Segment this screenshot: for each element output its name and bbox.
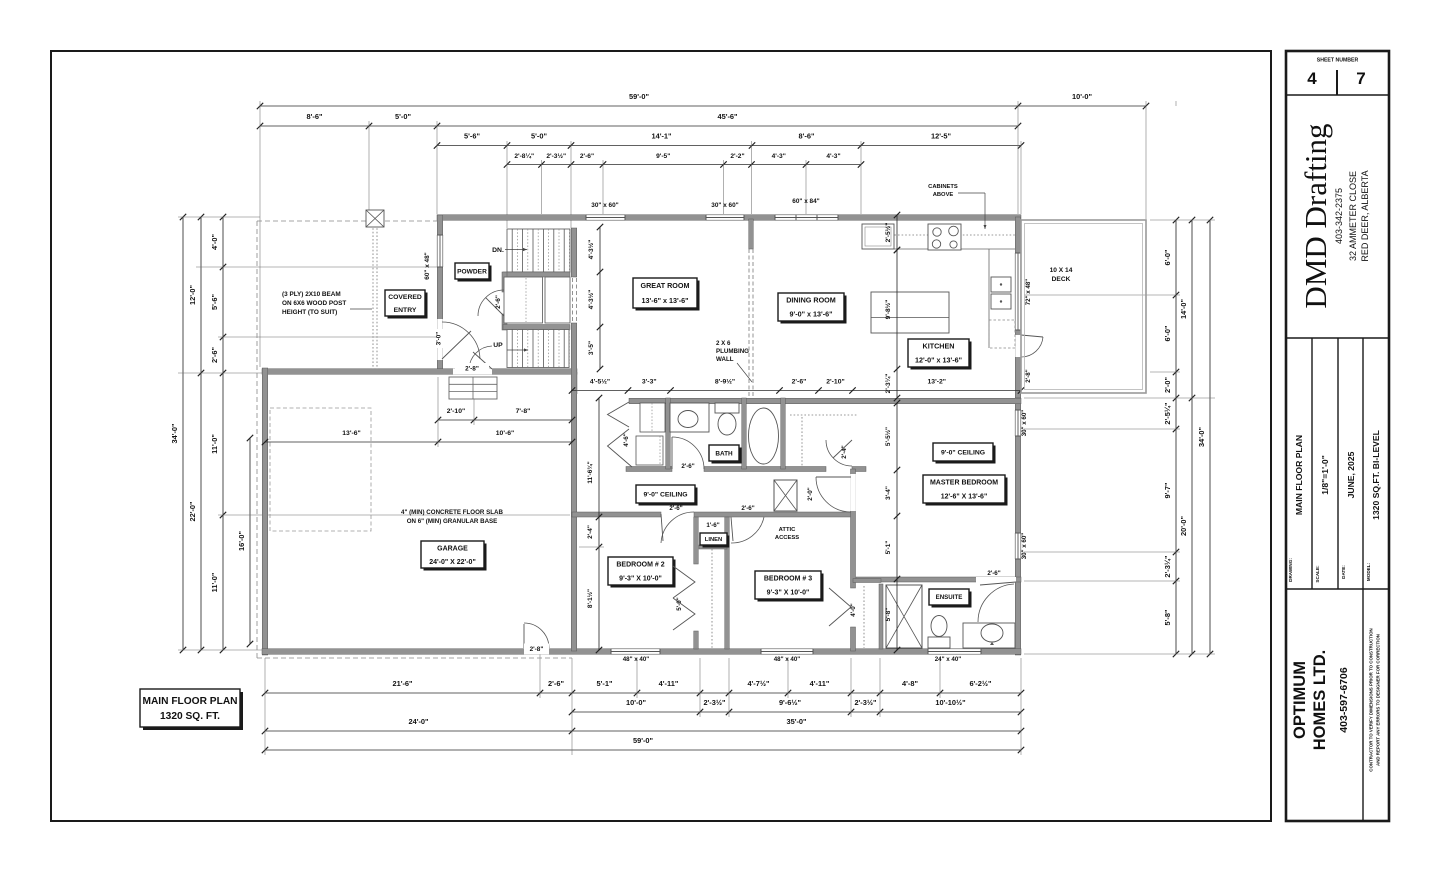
svg-text:2 X 6: 2 X 6 bbox=[716, 340, 731, 347]
stair right wall upper bbox=[571, 228, 577, 277]
bed3 closet right wall lower bbox=[851, 627, 856, 651]
hall end wall to master bbox=[851, 469, 856, 588]
svg-text:403-597-6706: 403-597-6706 bbox=[1338, 667, 1350, 733]
bottom dimension row 1 bbox=[265, 692, 1021, 694]
svg-text:8'-1½": 8'-1½" bbox=[586, 589, 594, 608]
svg-text:ON 6X6 WOOD POST: ON 6X6 WOOD POST bbox=[282, 300, 346, 307]
kitchen window 72x48 bbox=[1015, 253, 1021, 330]
garage left wall bbox=[262, 368, 268, 655]
sheet border frame bbox=[51, 51, 1271, 821]
builder name block bbox=[1362, 589, 1364, 821]
ensuite door swing bbox=[978, 584, 1014, 622]
steps down to garage bbox=[449, 377, 497, 399]
master interior dims bbox=[896, 403, 898, 650]
svg-text:5'-0": 5'-0" bbox=[676, 597, 683, 610]
covered entry roof dashed outline bbox=[257, 220, 437, 222]
svg-text:MASTER BEDROOM: MASTER BEDROOM bbox=[930, 480, 998, 487]
great room label bbox=[636, 281, 700, 311]
top exterior wall bbox=[437, 215, 1021, 221]
svg-text:45'-6": 45'-6" bbox=[717, 112, 738, 121]
svg-text:2'-0": 2'-0" bbox=[807, 487, 814, 500]
svg-text:2'-8": 2'-8" bbox=[465, 366, 479, 373]
svg-text:4'-6": 4'-6" bbox=[623, 433, 630, 446]
svg-text:32 AMMETER CLOSE: 32 AMMETER CLOSE bbox=[1348, 171, 1358, 261]
deck outline bbox=[1021, 220, 1146, 393]
svg-text:4'-11": 4'-11" bbox=[659, 679, 679, 688]
svg-text:13'-2": 13'-2" bbox=[928, 379, 946, 386]
house mid wall bbox=[629, 398, 1021, 404]
double sink bbox=[991, 277, 1011, 292]
svg-text:10'-6": 10'-6" bbox=[496, 430, 514, 437]
bed2 closet wall bbox=[694, 517, 699, 564]
svg-text:21'-6": 21'-6" bbox=[392, 679, 413, 688]
svg-text:2'-4": 2'-4" bbox=[841, 445, 848, 458]
svg-text:59'-0": 59'-0" bbox=[629, 92, 650, 101]
right dimension column 14ft 20ft bbox=[1191, 220, 1193, 654]
right dimension column 34ft bbox=[1209, 220, 1211, 654]
right witness lines bbox=[1150, 219, 1215, 221]
svg-text:30" x 60": 30" x 60" bbox=[711, 202, 738, 209]
garage interior 16ft dim bbox=[249, 438, 251, 644]
stair landing bbox=[504, 277, 543, 323]
svg-text:48" x 40": 48" x 40" bbox=[774, 656, 801, 663]
bath label bbox=[712, 448, 742, 464]
svg-text:60" x 84": 60" x 84" bbox=[792, 198, 819, 205]
svg-text:4'-0": 4'-0" bbox=[850, 603, 857, 616]
stair wall above UP flight bbox=[503, 325, 570, 330]
garage top wall bbox=[262, 369, 577, 375]
svg-text:12'-5": 12'-5" bbox=[931, 132, 952, 141]
dining window 30x60 bbox=[706, 215, 744, 221]
svg-text:10'-10½": 10'-10½" bbox=[935, 698, 966, 707]
stair wall below DN flight bbox=[503, 272, 570, 277]
svg-text:5'-6": 5'-6" bbox=[464, 132, 480, 141]
svg-text:ACCESS: ACCESS bbox=[775, 535, 799, 541]
svg-text:COVERED: COVERED bbox=[388, 294, 422, 301]
svg-text:9'-8½": 9'-8½" bbox=[884, 300, 892, 320]
hall closet bifold doors bbox=[608, 402, 630, 427]
hall ceiling label bbox=[639, 488, 698, 506]
svg-text:3'-5": 3'-5" bbox=[588, 341, 595, 355]
svg-text:CONTRACTOR TO VERIFY DIMENSION: CONTRACTOR TO VERIFY DIMENSIONS PRIOR TO… bbox=[1369, 628, 1374, 771]
front door swing bbox=[442, 322, 480, 359]
front door opening bbox=[437, 319, 443, 360]
svg-text:5'-0": 5'-0" bbox=[531, 132, 547, 141]
svg-text:4'-11": 4'-11" bbox=[810, 679, 830, 688]
drawing info rows bbox=[1311, 338, 1313, 589]
master bottom wall bbox=[856, 577, 1021, 582]
entry post symbol bbox=[366, 210, 384, 227]
great room open rail dashes bbox=[748, 249, 750, 398]
svg-text:2'-8": 2'-8" bbox=[1025, 369, 1032, 382]
svg-text:24'-0" X 22'-0": 24'-0" X 22'-0" bbox=[429, 559, 476, 566]
bathtub bbox=[749, 408, 779, 464]
svg-text:9'-6½": 9'-6½" bbox=[779, 698, 802, 707]
svg-text:KITCHEN: KITCHEN bbox=[923, 342, 955, 351]
garage door swing bbox=[524, 623, 549, 648]
svg-text:4'-3½": 4'-3½" bbox=[587, 290, 595, 310]
counter edge bbox=[894, 248, 1015, 250]
svg-text:ON 6" (MIN) GRANULAR BASE: ON 6" (MIN) GRANULAR BASE bbox=[407, 518, 498, 525]
bottom dimension row 2 bbox=[572, 711, 1021, 713]
ensuite window 24x40 bbox=[928, 649, 981, 655]
interior dim row mid bbox=[572, 390, 1021, 392]
attic access hatch bbox=[774, 480, 797, 511]
garage man door opening bbox=[524, 649, 549, 655]
master ceiling label bbox=[936, 446, 996, 464]
svg-text:GARAGE: GARAGE bbox=[437, 545, 468, 552]
svg-text:2'-8¼": 2'-8¼" bbox=[514, 152, 534, 160]
deck door swing bbox=[1021, 337, 1043, 357]
svg-text:SCALE:: SCALE: bbox=[1315, 565, 1320, 583]
right dimension column deck and master bbox=[1175, 220, 1177, 654]
svg-text:MAIN FLOOR PLAN: MAIN FLOOR PLAN bbox=[1294, 435, 1304, 515]
bed3 closet top wall bbox=[853, 579, 881, 583]
ensuite label bbox=[932, 592, 972, 608]
svg-text:9'-5": 9'-5" bbox=[656, 153, 670, 160]
kitchen interior dims bbox=[896, 250, 898, 398]
bedroom3 door swing bbox=[731, 517, 764, 543]
svg-text:9'-7": 9'-7" bbox=[1163, 482, 1172, 498]
svg-text:CABINETS: CABINETS bbox=[928, 184, 958, 190]
svg-text:5'-6": 5'-6" bbox=[210, 294, 219, 310]
svg-text:30" x 60": 30" x 60" bbox=[1021, 410, 1028, 437]
svg-text:2'-3½": 2'-3½" bbox=[854, 698, 877, 707]
svg-text:2'-3½": 2'-3½" bbox=[546, 152, 566, 160]
linen closet walls bbox=[725, 517, 730, 649]
svg-text:DECK: DECK bbox=[1052, 276, 1071, 283]
svg-text:2'-4": 2'-4" bbox=[587, 525, 594, 539]
svg-text:POWDER: POWDER bbox=[457, 268, 487, 275]
svg-text:9'-0" x 13'-6": 9'-0" x 13'-6" bbox=[790, 310, 833, 319]
stairwell lower flight UP bbox=[507, 330, 569, 368]
svg-text:2'-6": 2'-6" bbox=[548, 679, 564, 688]
svg-text:403-342-2375: 403-342-2375 bbox=[1334, 188, 1344, 244]
fridge bbox=[862, 224, 894, 249]
bottom exterior wall bbox=[262, 649, 1021, 655]
svg-text:16'-0": 16'-0" bbox=[237, 530, 246, 551]
bedroom2 door swing bbox=[661, 512, 694, 543]
svg-text:14'-1": 14'-1" bbox=[651, 132, 672, 141]
svg-text:3'-3": 3'-3" bbox=[642, 379, 657, 386]
svg-text:ABOVE: ABOVE bbox=[933, 192, 954, 198]
svg-text:SHEET NUMBER: SHEET NUMBER bbox=[1317, 58, 1359, 64]
svg-text:20'-0": 20'-0" bbox=[1179, 515, 1188, 536]
svg-text:DN.: DN. bbox=[492, 247, 504, 254]
kitchen island with eating bar bbox=[871, 292, 949, 333]
title block outer box bbox=[1286, 51, 1389, 821]
master window 30x60 lower bbox=[1015, 533, 1021, 559]
svg-text:AND REPORT ANY ERRORS TO DESIG: AND REPORT ANY ERRORS TO DESIGNER FOR CO… bbox=[1376, 634, 1381, 766]
bath sink counter bbox=[670, 403, 709, 432]
svg-text:4" (MIN) CONCRETE FLOOR SLAB: 4" (MIN) CONCRETE FLOOR SLAB bbox=[401, 509, 503, 516]
svg-text:2'-6": 2'-6" bbox=[741, 505, 754, 512]
top dimension row 3 bbox=[437, 145, 1021, 147]
svg-text:5'-8": 5'-8" bbox=[885, 608, 892, 622]
bedroom3 closet rod bbox=[863, 586, 865, 648]
svg-text:1320 SQ. FT.: 1320 SQ. FT. bbox=[160, 711, 220, 722]
svg-text:10'-0": 10'-0" bbox=[626, 698, 647, 707]
dining window 60x84 bbox=[775, 215, 838, 221]
svg-text:2'-6": 2'-6" bbox=[669, 505, 682, 512]
svg-text:2'-3¼": 2'-3¼" bbox=[1163, 555, 1172, 578]
kitchen label bbox=[911, 342, 972, 370]
svg-text:4'-8": 4'-8" bbox=[902, 679, 918, 688]
covered entry label bbox=[388, 293, 428, 319]
svg-text:12'-0": 12'-0" bbox=[188, 284, 197, 305]
DMD Drafting firm name bbox=[1286, 337, 1389, 339]
svg-text:9'-0" CEILING: 9'-0" CEILING bbox=[643, 491, 687, 498]
svg-text:ENSUITE: ENSUITE bbox=[936, 594, 963, 601]
garage label bbox=[424, 544, 487, 571]
entry to garage door opening bbox=[453, 369, 492, 375]
svg-text:2'-6": 2'-6" bbox=[495, 295, 502, 309]
svg-text:4'-0": 4'-0" bbox=[210, 234, 219, 250]
svg-text:MODEL:: MODEL: bbox=[1366, 562, 1371, 581]
bedroom2 closet rod bbox=[711, 549, 713, 648]
ensuite toilet bbox=[928, 637, 950, 648]
dining room label bbox=[781, 296, 847, 324]
top dimension row 4 bbox=[507, 164, 861, 166]
dishwasher dashed bbox=[989, 320, 1015, 348]
svg-text:ENTRY: ENTRY bbox=[394, 307, 417, 314]
svg-text:1'-6": 1'-6" bbox=[706, 522, 719, 529]
svg-text:3'-4": 3'-4" bbox=[885, 486, 892, 500]
bottom witness lines bbox=[264, 658, 266, 755]
svg-text:9'-3" X 10'-0": 9'-3" X 10'-0" bbox=[619, 576, 662, 583]
plumbing wall stub bbox=[749, 219, 754, 249]
right counter edge bbox=[988, 249, 990, 348]
master entry door bbox=[816, 477, 851, 512]
svg-text:30" x 60": 30" x 60" bbox=[591, 202, 618, 209]
upper cabinets dotted line bbox=[862, 234, 1015, 236]
entry window 60x48 bbox=[437, 235, 443, 267]
front entry wall bbox=[437, 215, 443, 370]
svg-text:4'-3": 4'-3" bbox=[826, 153, 840, 160]
hall closet shelves bbox=[640, 403, 665, 432]
svg-text:72" x 48": 72" x 48" bbox=[1025, 279, 1032, 306]
master window 30x60 upper bbox=[1015, 410, 1021, 436]
svg-text:2'-5¼": 2'-5¼" bbox=[1163, 402, 1172, 425]
stove with burners bbox=[928, 224, 961, 250]
bedroom3 label bbox=[758, 574, 824, 602]
bath door swing bbox=[672, 437, 704, 469]
garage dashed interior outline bbox=[270, 408, 371, 531]
svg-text:4: 4 bbox=[1307, 69, 1317, 88]
walkin closet door bbox=[826, 440, 852, 466]
svg-text:2'-2": 2'-2" bbox=[730, 153, 744, 160]
svg-text:3'-0": 3'-0" bbox=[436, 332, 443, 345]
bedroom3 closet bifold bbox=[829, 588, 851, 626]
entry-garage door swing bbox=[469, 346, 492, 369]
svg-text:2'-10": 2'-10" bbox=[447, 408, 465, 415]
bedroom3 window 48x40 bbox=[761, 649, 813, 655]
svg-text:2'-3½": 2'-3½" bbox=[703, 698, 726, 707]
walkin closet left wall is tub wall; hall bottom wall bbox=[572, 512, 661, 517]
house right wall kitchen bbox=[1015, 217, 1021, 398]
svg-text:13'-6": 13'-6" bbox=[342, 430, 360, 437]
stair right wall lower bbox=[571, 323, 577, 651]
stairwell upper flight DN bbox=[507, 229, 570, 272]
svg-text:DINING ROOM: DINING ROOM bbox=[786, 296, 836, 305]
svg-text:4'-7½": 4'-7½" bbox=[747, 679, 770, 688]
svg-text:60" x 48": 60" x 48" bbox=[424, 252, 431, 279]
svg-text:11'-6¾": 11'-6¾" bbox=[586, 461, 594, 483]
svg-text:DATE:: DATE: bbox=[1341, 565, 1346, 579]
svg-text:4'-3": 4'-3" bbox=[772, 153, 786, 160]
svg-text:48" x 40": 48" x 40" bbox=[623, 656, 650, 663]
bedroom2 closet bifold bbox=[673, 566, 695, 598]
svg-text:1320 SQ.FT. BI-LEVEL: 1320 SQ.FT. BI-LEVEL bbox=[1371, 430, 1381, 520]
svg-text:UP: UP bbox=[493, 342, 503, 349]
svg-text:PLUMBING: PLUMBING bbox=[716, 348, 749, 355]
svg-text:59'-0": 59'-0" bbox=[633, 736, 654, 745]
bath block bottom wall bbox=[626, 467, 672, 472]
svg-text:4'-3½": 4'-3½" bbox=[587, 240, 595, 260]
top dimension row 2 bbox=[260, 125, 1018, 127]
bedroom2 label bbox=[611, 560, 676, 588]
svg-text:BEDROOM # 2: BEDROOM # 2 bbox=[616, 562, 664, 569]
svg-text:14'-0": 14'-0" bbox=[1179, 298, 1188, 319]
bath toilet bbox=[715, 403, 739, 413]
svg-text:DRAWING:: DRAWING: bbox=[1288, 558, 1293, 582]
stair side dims bbox=[599, 227, 601, 369]
svg-text:2'-10": 2'-10" bbox=[826, 379, 844, 386]
stair open rail dashes bbox=[572, 278, 574, 322]
landing left wall below door bbox=[502, 314, 507, 330]
svg-text:8'-9½": 8'-9½" bbox=[715, 378, 735, 386]
svg-text:6'-0": 6'-0" bbox=[1163, 249, 1172, 265]
walkin closet rod dashed bbox=[790, 414, 858, 416]
entry post dotted line bbox=[372, 221, 374, 369]
svg-text:HOMES LTD.: HOMES LTD. bbox=[1311, 650, 1329, 751]
tub right wall bbox=[781, 398, 786, 469]
svg-text:OPTIMUM: OPTIMUM bbox=[1291, 661, 1309, 739]
svg-text:34'-0": 34'-0" bbox=[170, 423, 179, 444]
svg-text:13'-6" x 13'-6": 13'-6" x 13'-6" bbox=[642, 296, 689, 305]
svg-text:2'-8": 2'-8" bbox=[530, 646, 544, 653]
ensuite left walls bbox=[879, 584, 883, 649]
svg-text:11'-0": 11'-0" bbox=[210, 434, 219, 454]
svg-text:5'-8": 5'-8" bbox=[1163, 609, 1172, 625]
svg-text:1/8"=1'-0": 1/8"=1'-0" bbox=[1320, 455, 1330, 495]
powder door to landing bbox=[478, 290, 504, 316]
left witness lines bbox=[178, 216, 260, 218]
svg-text:WALL: WALL bbox=[716, 356, 734, 363]
svg-text:5'-0": 5'-0" bbox=[395, 112, 411, 121]
master bedroom label bbox=[926, 478, 1008, 506]
svg-text:35'-0": 35'-0" bbox=[786, 717, 807, 726]
svg-text:BEDROOM # 3: BEDROOM # 3 bbox=[764, 576, 812, 583]
svg-text:11'-0": 11'-0" bbox=[210, 572, 219, 592]
bottom dimension row 4 bbox=[265, 749, 1021, 751]
left dimension column 12ft 22ft bbox=[200, 217, 202, 650]
left dimension column inner bbox=[222, 217, 224, 650]
svg-text:4'-5½": 4'-5½" bbox=[590, 378, 610, 386]
svg-text:9'-3" X 10'-0": 9'-3" X 10'-0" bbox=[767, 590, 810, 597]
svg-text:8'-6": 8'-6" bbox=[307, 112, 323, 121]
svg-text:LINEN: LINEN bbox=[705, 537, 722, 543]
garage interior dims bbox=[265, 441, 572, 443]
svg-text:24'-0": 24'-0" bbox=[408, 717, 429, 726]
ensuite sink counter bbox=[963, 623, 1015, 648]
svg-text:2'-6": 2'-6" bbox=[210, 347, 219, 363]
landing left wall above door bbox=[502, 272, 507, 292]
bedroom2 window 48x40 bbox=[611, 649, 660, 655]
svg-text:9'-0" CEILING: 9'-0" CEILING bbox=[941, 449, 985, 456]
main floor plan title bbox=[143, 692, 243, 730]
svg-text:2'-0": 2'-0" bbox=[1163, 377, 1172, 393]
ensuite shower bbox=[886, 585, 922, 648]
svg-text:ATTIC: ATTIC bbox=[779, 527, 796, 533]
great room window 30x60 bbox=[586, 215, 625, 221]
svg-text:12'-6" X 13'-6": 12'-6" X 13'-6" bbox=[941, 494, 988, 501]
deck door opening bbox=[1015, 335, 1021, 357]
svg-text:2'-6": 2'-6" bbox=[681, 463, 694, 470]
svg-text:6'-2½": 6'-2½" bbox=[969, 679, 992, 688]
top witness lines bbox=[259, 101, 261, 367]
svg-text:7: 7 bbox=[1356, 69, 1365, 88]
svg-text:BATH: BATH bbox=[715, 450, 733, 457]
svg-text:DMD Drafting: DMD Drafting bbox=[1298, 123, 1333, 308]
svg-text:GREAT ROOM: GREAT ROOM bbox=[641, 281, 690, 290]
svg-text:5'-1": 5'-1" bbox=[885, 541, 892, 555]
svg-text:(3 PLY) 2X10 BEAM: (3 PLY) 2X10 BEAM bbox=[282, 291, 341, 298]
svg-text:5'-5½": 5'-5½" bbox=[884, 427, 892, 446]
svg-text:8'-6": 8'-6" bbox=[799, 132, 815, 141]
powder room label bbox=[458, 266, 492, 282]
svg-text:24" x 40": 24" x 40" bbox=[935, 656, 962, 663]
top dimension row 59ft and 10ft bbox=[260, 105, 1146, 107]
hall interior dims bbox=[598, 398, 600, 650]
svg-text:22'-0": 22'-0" bbox=[188, 501, 197, 522]
svg-text:6'-0": 6'-0" bbox=[1163, 325, 1172, 341]
svg-text:2'-6": 2'-6" bbox=[792, 379, 807, 386]
svg-text:RED DEER, ALBERTA: RED DEER, ALBERTA bbox=[1360, 170, 1370, 261]
sheet number section bbox=[1286, 94, 1389, 96]
bath toilet tub wall bbox=[742, 398, 747, 469]
svg-text:5'-1": 5'-1" bbox=[597, 679, 613, 688]
svg-text:HEIGHT (TO SUIT): HEIGHT (TO SUIT) bbox=[282, 309, 337, 316]
svg-text:2'-6": 2'-6" bbox=[580, 153, 594, 160]
svg-text:JUNE, 2025: JUNE, 2025 bbox=[1346, 451, 1356, 498]
svg-text:34'-0": 34'-0" bbox=[1197, 426, 1206, 447]
master right wall bbox=[1015, 398, 1021, 655]
svg-text:30" x 60": 30" x 60" bbox=[1021, 533, 1028, 560]
svg-text:7'-8": 7'-8" bbox=[516, 408, 531, 415]
left dimension column 34ft bbox=[182, 217, 184, 650]
svg-text:2'-6": 2'-6" bbox=[987, 570, 1000, 577]
hall closet right wall bbox=[666, 398, 671, 469]
svg-text:2'-5½": 2'-5½" bbox=[884, 223, 892, 243]
svg-text:10'-0": 10'-0" bbox=[1072, 92, 1093, 101]
svg-text:12'-0" x 13'-6": 12'-0" x 13'-6" bbox=[915, 356, 962, 365]
svg-text:10 X 14: 10 X 14 bbox=[1050, 267, 1073, 274]
bottom dimension row 3 bbox=[265, 730, 1021, 732]
svg-text:MAIN FLOOR PLAN: MAIN FLOOR PLAN bbox=[142, 696, 237, 707]
